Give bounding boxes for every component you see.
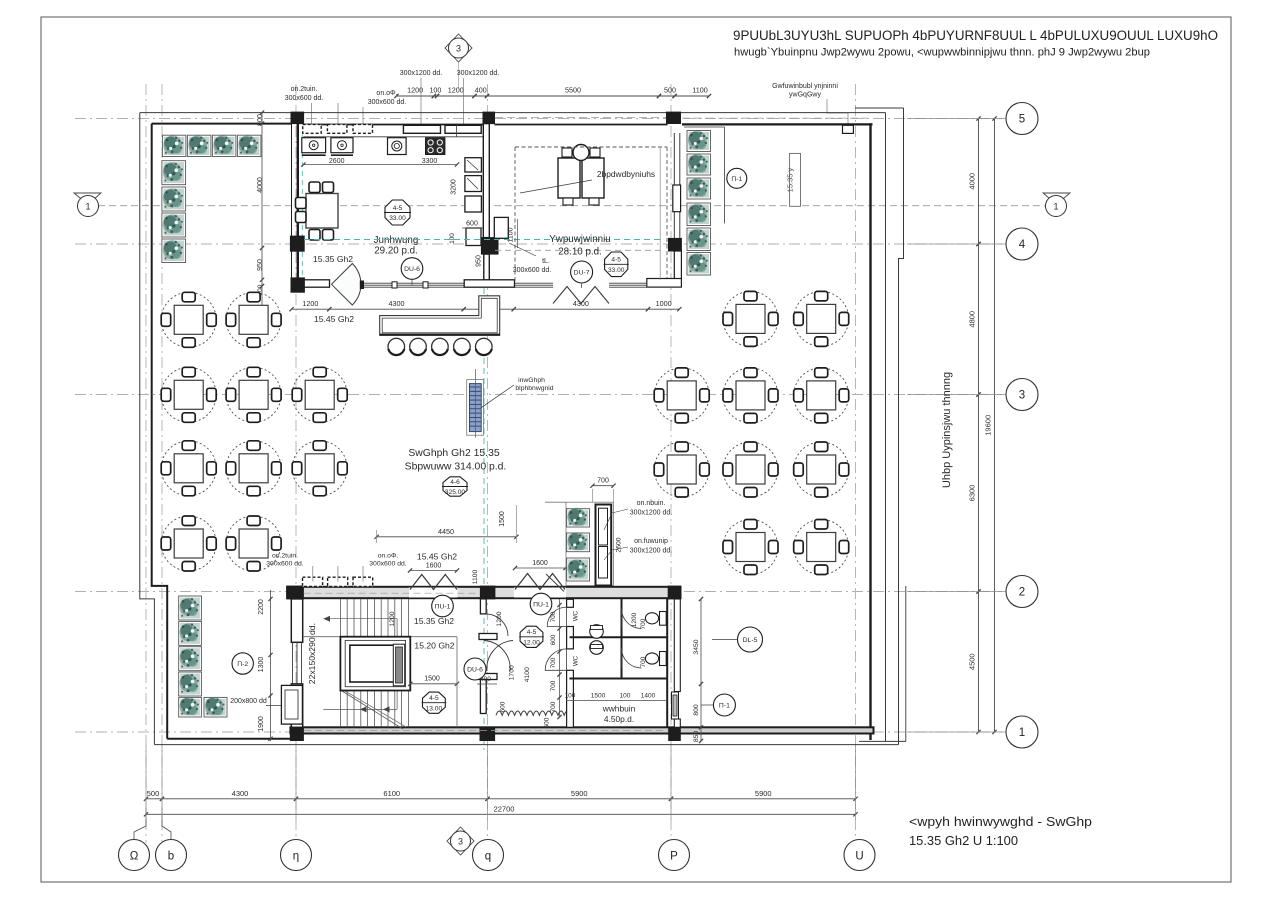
bar counter: [380, 296, 500, 336]
terrace outer edge top-right stub: [855, 107, 904, 109]
kitchen chair top 1: [309, 182, 320, 193]
bottom block bottom wall band: [290, 727, 873, 733]
svg-text:4450: 4450: [438, 527, 454, 536]
corridor wall stub bottom: [480, 680, 486, 714]
svg-text:700: 700: [640, 618, 647, 629]
svg-text:5900: 5900: [571, 789, 588, 798]
window mullion 2: [423, 282, 428, 288]
svg-text:1300: 1300: [258, 657, 265, 673]
svg-text:300x600 dd.: 300x600 dd.: [285, 95, 324, 102]
svg-text:4-5: 4-5: [429, 695, 439, 702]
svg-text:b: b: [168, 851, 174, 863]
kitchen right wall lower: [484, 254, 490, 280]
dining table left 7: [226, 441, 281, 496]
column C11: [290, 727, 303, 740]
svg-text:800: 800: [693, 704, 700, 716]
wc right wall: [666, 599, 668, 727]
dining table right 7: [723, 442, 778, 497]
svg-text:Ω: Ω: [130, 851, 139, 863]
vent shaft above wc: [596, 505, 612, 586]
dimension chain below kitchen: [292, 308, 680, 310]
section line 1-1 horizontal: [98, 205, 1045, 207]
dining table left 6: [161, 441, 216, 496]
grid axis horizontal 4: [75, 243, 1006, 245]
fridge stack 1: [465, 158, 482, 172]
svg-text:100: 100: [449, 233, 456, 244]
plant enclosure above wc: [566, 502, 614, 585]
grid bubble zh bottom: [119, 840, 150, 871]
folding door PA-1 left: [410, 575, 457, 590]
grid bubble leader e: [162, 808, 171, 839]
plant boxes left column: [162, 161, 186, 185]
grid axis vertical d: [295, 84, 297, 843]
svg-text:4300: 4300: [573, 299, 589, 308]
svg-text:3: 3: [456, 44, 461, 54]
terrace inner parapet top-left: [152, 123, 291, 125]
svg-text:300x1200 dd.: 300x1200 dd.: [630, 548, 672, 555]
terrace outer edge top: [140, 112, 886, 114]
wc left wall: [567, 599, 574, 607]
svg-text:DU-7: DU-7: [574, 270, 590, 277]
kitchen chair left 1: [296, 198, 307, 209]
dining table right 1: [723, 291, 778, 346]
door circle P-1 bottom: [713, 694, 735, 716]
terrace inner parapet bottom-left: [167, 738, 290, 740]
wc sink 2: [590, 641, 604, 655]
dining top-right parapet: [682, 123, 873, 125]
svg-text:ΠU-1: ΠU-1: [533, 602, 549, 609]
boiler right wall lower: [674, 251, 681, 279]
svg-text:U: U: [855, 851, 863, 863]
elevation octagon corridor: [520, 626, 543, 647]
folding door PA-1 right: [515, 574, 565, 590]
svg-text:28.10 p.d.: 28.10 p.d.: [558, 247, 602, 258]
dining table right 10: [794, 520, 849, 575]
svg-text:WC: WC: [573, 655, 580, 666]
svg-text:15.20 Gh2: 15.20 Gh2: [414, 641, 454, 651]
wc partition horizontal 1: [570, 636, 667, 638]
dimension chain right of wc: [700, 599, 702, 741]
kitchen window band bottom: [364, 282, 465, 284]
kitchen top wall inner line: [303, 124, 483, 126]
wc partition horizontal 2: [570, 678, 667, 680]
section marker 1 left: [74, 193, 101, 205]
boiler top wall centerline: [495, 117, 667, 119]
svg-text:22x150x290 dd.: 22x150x290 dd.: [307, 623, 317, 684]
vent box el label: [494, 217, 508, 238]
svg-text:Junhwung: Junhwung: [374, 235, 419, 246]
svg-text:3: 3: [458, 837, 463, 847]
elevation octagon terrace: [443, 477, 467, 496]
svg-text:η: η: [293, 851, 299, 863]
svg-text:2bpdwdbyniuhs: 2bpdwdbyniuhs: [597, 169, 655, 179]
svg-text:1200: 1200: [496, 611, 503, 626]
grid axis horizontal 1: [75, 731, 1006, 733]
door circle DU-7: [571, 261, 593, 283]
svg-text:300x1200 dd.: 300x1200 dd.: [457, 70, 499, 77]
kitchen chair bottom 2: [323, 230, 334, 241]
dimension 2600 kitchen: [303, 164, 457, 166]
insulation dashed left: [514, 147, 516, 283]
dimension line left vertical: [261, 113, 263, 306]
dimension line left lower: [270, 590, 272, 741]
svg-text:1500: 1500: [499, 511, 506, 527]
dining table left 10: [226, 516, 281, 571]
riser box kanagnak on wall: [843, 125, 854, 133]
svg-text:950: 950: [257, 259, 264, 271]
svg-text:blphbnwgnid: blphbnwgnid: [515, 385, 553, 392]
kitchen insulation teal dash: [301, 135, 303, 279]
corridor wall stub top: [480, 599, 486, 614]
svg-text:500: 500: [147, 789, 160, 798]
wc door arc upper-left: [547, 607, 566, 626]
svg-text:P: P: [670, 851, 678, 863]
boiler window band bottom right: [609, 282, 647, 284]
grid bubble 2 right: [1005, 591, 1007, 593]
svg-text:Π-1: Π-1: [719, 703, 730, 710]
svg-text:2: 2: [1019, 587, 1025, 599]
dining table left 8: [292, 441, 347, 496]
svg-text:4100: 4100: [524, 667, 531, 682]
svg-text:4.50p.d.: 4.50p.d.: [604, 714, 634, 724]
terrace parapet line right: [885, 113, 887, 741]
svg-text:1200: 1200: [631, 612, 638, 627]
column C5 boiler right mid: [669, 238, 682, 251]
fridge stack 3: [465, 196, 482, 212]
dimension extension lines bottom: [145, 745, 147, 820]
svg-text:15.45 Gh2: 15.45 Gh2: [417, 552, 457, 562]
svg-text:2200: 2200: [258, 599, 265, 615]
lowered area boundary: [456, 637, 458, 728]
insulation dashed top: [515, 146, 667, 148]
section marker 1 right: [1043, 193, 1070, 205]
boiler door DU-7 zigzag: [553, 287, 609, 304]
counter divider vertical: [456, 125, 458, 137]
svg-text:6100: 6100: [383, 789, 400, 798]
wc toilet 1: [660, 612, 667, 626]
svg-text:1700: 1700: [509, 665, 516, 680]
sink unit 1: [302, 138, 326, 153]
wc sink 1: [590, 625, 604, 639]
wc partition vertical: [621, 599, 623, 679]
scallop insulation line: [496, 711, 570, 715]
svg-text:33.00: 33.00: [608, 267, 625, 274]
column C3 boiler top-right: [667, 112, 681, 123]
door circle DU-6 kitchen: [401, 258, 423, 280]
elevation octagon kitchen: [385, 200, 410, 225]
bottom block top wall band: [287, 587, 680, 598]
svg-text:15.35 Gh2: 15.35 Gh2: [414, 616, 454, 626]
svg-text:4: 4: [1019, 239, 1026, 251]
svg-text:1200: 1200: [389, 611, 396, 626]
svg-text:1200: 1200: [302, 299, 318, 308]
column C6 kitchen right mid: [481, 238, 498, 255]
svg-text:300x600 dd.: 300x600 dd.: [369, 561, 407, 568]
kitchen chair top 2: [323, 182, 334, 193]
wc outer cavity wall lower: [674, 719, 680, 727]
svg-text:4000: 4000: [968, 173, 977, 190]
dining table right 2: [794, 291, 849, 346]
stair landing line: [303, 636, 457, 638]
svg-text:22700: 22700: [494, 804, 515, 813]
svg-text:4-5: 4-5: [527, 629, 537, 636]
svg-text:500: 500: [544, 717, 551, 728]
wc outer cavity wall upper: [674, 599, 680, 692]
vent leaders stair wall: [312, 566, 314, 582]
svg-text:2600: 2600: [329, 158, 345, 165]
dining top-right band centerline: [682, 117, 868, 119]
svg-text:700: 700: [550, 611, 557, 622]
svg-text:q: q: [485, 851, 491, 863]
terrace inner parapet left: [152, 124, 168, 739]
kitchen chair left 2: [296, 212, 307, 223]
svg-text:Ywpuwjwinniu: Ywpuwjwinniu: [549, 234, 611, 245]
boiler bottom corner wall: [647, 279, 682, 288]
svg-text:300x1200 dd.: 300x1200 dd.: [630, 510, 672, 517]
dining table left 1: [161, 292, 216, 347]
svg-text:600: 600: [466, 221, 478, 228]
stair left wall window: [292, 642, 294, 684]
grid axis vertical zh: [145, 84, 147, 843]
svg-text:300x600 dd.: 300x600 dd.: [513, 267, 552, 274]
vent box dashed 1: [303, 124, 322, 133]
svg-text:700: 700: [597, 478, 609, 485]
grid axis horizontal 3: [75, 394, 1006, 396]
svg-text:WC: WC: [573, 610, 580, 621]
door circle P-2: [232, 653, 253, 674]
stair treads: [339, 599, 341, 637]
svg-text:9PUUbL3UYU3hL SUPUOPh 4bPUYURN: 9PUUbL3UYU3hL SUPUOPh 4bPUYURNF8UUL L 4b…: [733, 28, 1218, 43]
elevator shaft: [340, 637, 410, 691]
svg-text:4300: 4300: [389, 299, 405, 308]
terrace outer edge left with step: [140, 113, 155, 745]
svg-text:1100: 1100: [508, 227, 515, 242]
svg-text:1600: 1600: [532, 560, 548, 567]
kitchen bottom wall segment left: [292, 280, 330, 287]
corridor single door arc: [486, 614, 508, 636]
grid bubble e bottom: [156, 840, 187, 871]
plant enclosure right: [684, 126, 725, 128]
stair band centerline: [304, 592, 481, 594]
grid bubble 3 right: [1005, 394, 1007, 396]
svg-text:900: 900: [257, 114, 264, 126]
svg-text:400: 400: [480, 676, 491, 683]
kitchen door fan: [332, 264, 361, 306]
svg-text:1500: 1500: [591, 693, 606, 700]
dimension chain top kitchen: [396, 95, 709, 97]
dimension row wc bottom: [566, 700, 667, 702]
svg-text:1200: 1200: [448, 86, 464, 95]
svg-text:Gwfuwinbubl ynjninni: Gwfuwinbubl ynjninni: [772, 83, 838, 90]
grid bubble 5 right: [1005, 118, 1007, 120]
kitchen table: [306, 194, 338, 229]
svg-text:5500: 5500: [565, 86, 581, 95]
stair direction path: [323, 618, 397, 620]
svg-text:13.00: 13.00: [426, 705, 443, 712]
svg-text:500: 500: [664, 86, 676, 95]
fridge stack 4: [466, 228, 481, 246]
kitchen right wall: [483, 124, 489, 238]
svg-text:hwugb`Ybuinpnu Jwp2wywu 2powu,: hwugb`Ybuinpnu Jwp2wywu 2powu, <wupwwbin…: [734, 47, 1150, 59]
insulation dashed right: [666, 147, 668, 279]
column C10: [668, 586, 680, 599]
column C8: [287, 586, 303, 599]
svg-text:5: 5: [1019, 114, 1025, 126]
dimension 4450: [377, 536, 517, 538]
svg-text:2600: 2600: [616, 537, 623, 552]
bottom band centerline: [304, 730, 668, 732]
svg-text:600: 600: [550, 634, 557, 645]
svg-text:600: 600: [499, 701, 506, 712]
terrace outer edge right: [899, 108, 904, 745]
svg-text:700: 700: [550, 657, 557, 668]
microwave unit: [388, 138, 407, 155]
dining table right 9: [723, 520, 778, 575]
fridge stack 2: [465, 176, 482, 192]
vent box dashed 3: [353, 124, 373, 133]
stove unit: [426, 138, 445, 155]
boiler equipment unit: [558, 158, 580, 198]
wc outer door right: [672, 692, 679, 719]
dining table left 9: [161, 516, 216, 571]
column C2 kitchen top-right: [483, 112, 495, 124]
dimension 1600 left door: [410, 570, 457, 572]
dining table right 3: [654, 368, 709, 423]
bar stools: [388, 338, 405, 355]
svg-text:4800: 4800: [968, 311, 977, 328]
kitchen left wall lower: [291, 251, 293, 280]
svg-text:3450: 3450: [693, 639, 700, 654]
dining hall right wall: [869, 123, 871, 740]
door circle DL-5: [738, 627, 763, 652]
grid bubble g bottom: [473, 840, 504, 871]
svg-text:on.oΦ.: on.oΦ.: [376, 90, 397, 97]
duct line boiler: [659, 148, 661, 280]
svg-text:100: 100: [565, 693, 576, 700]
column C1 kitchen top-left: [291, 112, 304, 124]
elevation octagon boiler: [605, 252, 628, 277]
svg-text:325.00: 325.00: [445, 489, 466, 496]
svg-text:1900: 1900: [258, 716, 265, 732]
svg-text:4-6: 4-6: [450, 479, 460, 486]
svg-text:wwhbuin: wwhbuin: [602, 704, 636, 714]
dining table right 8: [794, 442, 849, 497]
svg-text:Π-1: Π-1: [731, 176, 742, 183]
wc toilet 2: [660, 652, 667, 666]
dining table right 6: [654, 442, 709, 497]
grid bubble leader zh: [134, 808, 146, 839]
svg-text:SwGhph Gh2 15.35: SwGhph Gh2 15.35: [408, 448, 499, 459]
svg-text:6300: 6300: [968, 485, 977, 502]
door circle DU-6 corridor: [464, 658, 486, 680]
boiler window band bottom left: [515, 282, 553, 284]
section line 3-3 vertical teal: [483, 238, 485, 750]
svg-text:200x800 dd: 200x800 dd: [230, 698, 267, 705]
exit vestibule left: [281, 685, 302, 724]
svg-text:<wpyh hwinwywghd - SwGhp: <wpyh hwinwywghd - SwGhp: [909, 814, 1092, 829]
door circle P-1 top: [727, 168, 747, 188]
svg-text:inwGhph: inwGhph: [518, 377, 545, 384]
svg-text:on.2tuin.: on.2tuin.: [291, 86, 318, 93]
grid axis vertical g: [487, 84, 489, 843]
corridor T wall upper: [479, 634, 497, 640]
svg-text:ywGqGwy: ywGqGwy: [789, 92, 821, 99]
svg-text:DU-6: DU-6: [467, 667, 483, 674]
svg-text:3: 3: [1019, 390, 1025, 402]
svg-text:DU-6: DU-6: [404, 266, 420, 273]
window box top 1: [403, 125, 440, 133]
grid axis vertical a: [855, 84, 857, 843]
svg-text:3300: 3300: [422, 158, 438, 165]
svg-text:1000: 1000: [656, 299, 672, 308]
kitchen counter line: [303, 136, 483, 138]
svg-text:tL.: tL.: [542, 258, 550, 265]
door circle PA-1 right: [530, 593, 552, 615]
svg-text:300x600 dd.: 300x600 dd.: [368, 99, 407, 106]
dimension chain bottom segments: [146, 798, 856, 800]
grid bubble d bottom: [281, 840, 312, 871]
column C9: [480, 586, 495, 599]
svg-text:400: 400: [475, 86, 487, 95]
terrace bottom-right ledge: [859, 740, 906, 742]
dimension right total 19600: [994, 119, 996, 733]
grid axis vertical b: [670, 84, 672, 843]
svg-text:700: 700: [640, 656, 647, 667]
column C4 kitchen left mid: [290, 236, 304, 251]
wc stall door arc 2: [622, 648, 642, 668]
svg-text:15.35 Gh2 U 1:100: 15.35 Gh2 U 1:100: [909, 833, 1018, 848]
kitchen chair bottom 1: [309, 230, 320, 241]
svg-text:15.35 y: 15.35 y: [786, 167, 795, 192]
dimension chain right segments: [978, 119, 980, 733]
door circle PA-1 left: [432, 595, 454, 617]
svg-text:on.oΦ.: on.oΦ.: [378, 553, 399, 560]
svg-text:700: 700: [550, 701, 557, 712]
grid bubble b2 bottom: [659, 840, 690, 871]
svg-text:300x1200 dd.: 300x1200 dd.: [400, 70, 442, 77]
grid bubble a bottom: [844, 840, 875, 871]
kitchen left wall: [291, 124, 293, 237]
stair left wall upper: [291, 599, 302, 642]
svg-text:5900: 5900: [755, 789, 772, 798]
svg-text:15.45 Gh2: 15.45 Gh2: [314, 314, 354, 324]
rotated stamp 15.35: [790, 153, 801, 206]
plant boxes bottom-left: [179, 596, 202, 620]
wall segment kitchen-boiler bottom: [464, 280, 514, 287]
svg-text:Uhbp Uypinsjwu thnnng: Uhbp Uypinsjwu thnnng: [941, 372, 953, 488]
dining table left 2: [226, 292, 281, 347]
svg-text:19600: 19600: [984, 415, 993, 436]
wc stall door arc 1: [622, 609, 642, 629]
elevation octagon stair: [423, 692, 446, 713]
section marker 3 bottom: [447, 827, 474, 855]
boiler right wall upper window: [673, 133, 675, 238]
bottom block top wall gap 1: [409, 588, 458, 598]
svg-text:700: 700: [550, 680, 557, 691]
svg-text:100: 100: [429, 86, 441, 95]
svg-text:4500: 4500: [968, 653, 977, 670]
dining table left 3: [161, 367, 216, 422]
svg-text:1: 1: [85, 202, 90, 212]
dimension 700 shaft: [593, 485, 614, 487]
gray dashed line boiler low: [495, 249, 660, 251]
boiler top wall inner line: [495, 124, 668, 126]
svg-text:Sbpwuww 314.00 p.d.: Sbpwuww 314.00 p.d.: [405, 462, 507, 473]
dining table right 5: [794, 368, 849, 423]
svg-text:4000: 4000: [257, 177, 264, 193]
svg-text:950: 950: [476, 255, 483, 267]
stair left wall lower: [291, 684, 302, 727]
